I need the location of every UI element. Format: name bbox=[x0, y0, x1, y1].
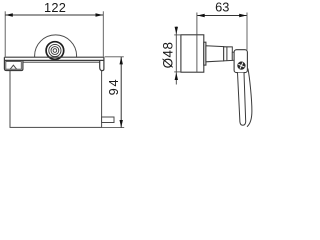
svg-text:63: 63 bbox=[215, 0, 229, 15]
svg-text:122: 122 bbox=[44, 0, 66, 15]
svg-text:Ø48: Ø48 bbox=[161, 42, 176, 69]
svg-text:94: 94 bbox=[106, 78, 121, 96]
